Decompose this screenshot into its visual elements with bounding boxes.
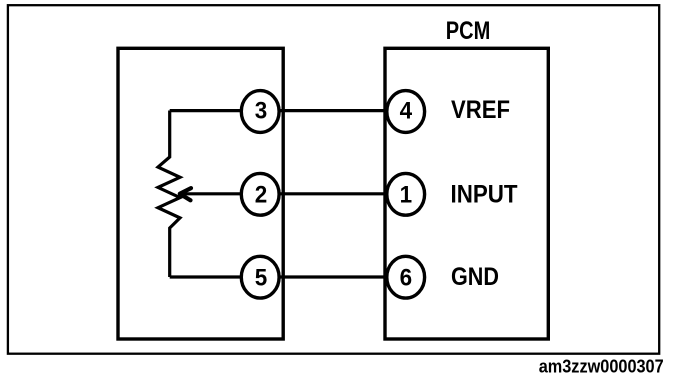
- svg-text:5: 5: [255, 265, 268, 292]
- svg-text:1: 1: [400, 181, 413, 208]
- svg-text:am3zzw0000307: am3zzw0000307: [539, 357, 664, 377]
- svg-text:4: 4: [400, 98, 413, 125]
- svg-text:INPUT: INPUT: [451, 181, 518, 209]
- svg-text:PCM: PCM: [446, 17, 491, 45]
- svg-text:2: 2: [255, 181, 268, 208]
- svg-text:6: 6: [400, 265, 413, 292]
- svg-text:3: 3: [255, 98, 268, 125]
- svg-text:VREF: VREF: [451, 96, 510, 124]
- svg-text:GND: GND: [451, 263, 499, 291]
